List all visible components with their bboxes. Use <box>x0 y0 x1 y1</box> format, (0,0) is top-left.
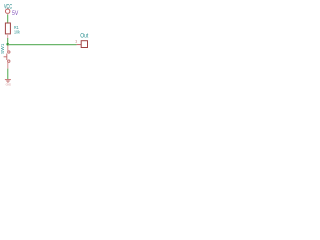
wire junction to connector <box>8 44 77 46</box>
wire resistor to junction <box>7 38 9 45</box>
switch SW1 lever bar <box>6 54 8 61</box>
switch SW1 pin 2 <box>7 62 9 68</box>
wire from VCC to resistor R1 <box>7 15 9 23</box>
svg-text:GND: GND <box>6 82 12 86</box>
svg-text:10k: 10k <box>14 29 21 35</box>
switch SW1 pin 1 <box>7 45 9 50</box>
power symbol VCC circle <box>5 9 9 13</box>
junction node <box>6 43 9 46</box>
resistor R1 pin 2 stub <box>7 34 9 38</box>
power symbol VCC pin stub <box>7 13 9 14</box>
svg-text:1: 1 <box>75 39 78 44</box>
svg-text:SW1: SW1 <box>0 43 6 54</box>
resistor R1 body <box>5 23 10 34</box>
connector J1 body <box>81 41 87 48</box>
switch SW1 contact circle top <box>8 51 10 53</box>
svg-text:VCC: VCC <box>4 4 12 11</box>
switch SW1 contact circle bottom <box>8 60 10 62</box>
switch SW1 actuator stem <box>4 56 7 58</box>
svg-text:5V: 5V <box>12 11 18 18</box>
ground symbol <box>5 80 11 83</box>
svg-text:Out: Out <box>80 33 89 39</box>
connector J1 pin 1 <box>77 44 82 46</box>
wire switch to ground <box>7 69 9 79</box>
